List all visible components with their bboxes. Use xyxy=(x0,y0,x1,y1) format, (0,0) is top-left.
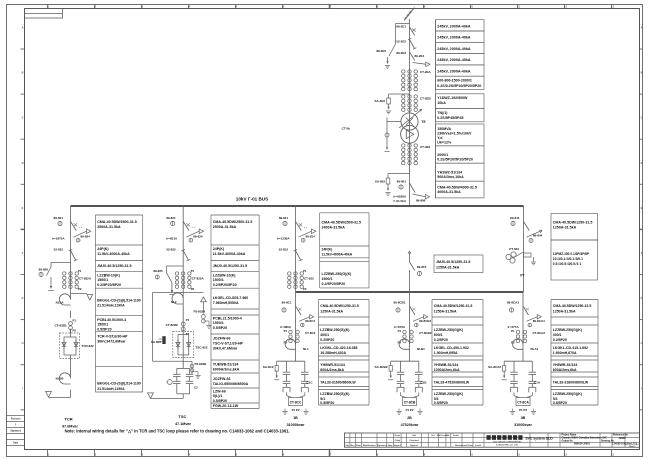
svg-text:JOZFW-66: JOZFW-66 xyxy=(213,337,231,341)
svg-text:CT-8CA: CT-8CA xyxy=(517,400,529,404)
svg-text:Project Name: Project Name xyxy=(562,433,577,436)
svg-text:I: I xyxy=(641,386,642,390)
svg-text:CT-8CB: CT-8CB xyxy=(404,400,416,404)
svg-text:XUJI GROUP CORPORATION: XUJI GROUP CORPORATION xyxy=(493,441,521,444)
svg-text:16.288mH,420A: 16.288mH,420A xyxy=(320,351,346,355)
svg-text:CT-2EB: CT-2EB xyxy=(420,97,432,101)
svg-text:7: 7 xyxy=(330,452,332,456)
svg-text:1250A-31.5kA: 1250A-31.5kA xyxy=(553,310,576,314)
svg-text:Y,d: Y,d xyxy=(437,136,442,140)
svg-text:G: G xyxy=(640,296,642,300)
svg-text:89-8C4: 89-8C4 xyxy=(305,319,315,323)
svg-text:CT-2EA: CT-2EA xyxy=(420,70,432,74)
svg-text:0.2/5P20/5P20: 0.2/5P20/5P20 xyxy=(322,282,346,286)
svg-text:P3-822B: P3-822B xyxy=(195,362,208,366)
svg-text:245kV, 2000A-40kA: 245kV, 2000A-40kA xyxy=(437,47,471,51)
svg-text:12: 12 xyxy=(564,452,567,456)
svg-text:Chkd: Chkd xyxy=(395,440,401,442)
svg-text:BKGGL-CD-(S)(I),514-1190: BKGGL-CD-(S)(I),514-1190 xyxy=(97,382,141,386)
svg-text:89-811: 89-811 xyxy=(279,216,289,220)
svg-text:230kV±3×1.5%/10kV: 230kV±3×1.5%/10kV xyxy=(437,132,472,136)
svg-text:89-826: 89-826 xyxy=(39,267,49,271)
svg-text:CT-822A: CT-822A xyxy=(192,276,205,280)
svg-text:1500/1: 1500/1 xyxy=(213,321,224,325)
svg-text:52-822: 52-822 xyxy=(166,247,176,251)
svg-text:0.2/5P20/5P20: 0.2/5P20/5P20 xyxy=(213,283,237,287)
svg-text:LZZBW-10(K): LZZBW-10(K) xyxy=(97,273,120,277)
svg-text:TALIO-6500/66/6500A: TALIO-6500/66/6500A xyxy=(213,382,249,386)
svg-text:150MVA: 150MVA xyxy=(437,127,451,131)
svg-text:NL3A: NL3A xyxy=(56,301,65,305)
svg-text:PT: PT xyxy=(520,274,524,278)
svg-text:NL1: NL1 xyxy=(303,347,309,351)
svg-text:4000A-31.5kA: 4000A-31.5kA xyxy=(437,190,461,194)
svg-text:Γ-01.5kA: Γ-01.5kA xyxy=(394,199,407,203)
svg-text:TSC-822: TSC-822 xyxy=(196,345,208,349)
svg-text:21.514mH,1190A: 21.514mH,1190A xyxy=(97,387,125,391)
svg-text:E: E xyxy=(22,206,24,210)
svg-text:CMA-40.5DW/2500-31.5: CMA-40.5DW/2500-31.5 xyxy=(97,220,137,224)
svg-text:89-841: 89-841 xyxy=(510,216,520,220)
svg-text:Apprd: Apprd xyxy=(394,444,401,447)
svg-text:A: A xyxy=(641,26,643,30)
svg-text:LKGKL-CD-420-16.288: LKGKL-CD-420-16.288 xyxy=(320,346,357,350)
svg-text:1: 1 xyxy=(48,452,50,456)
svg-text:H: H xyxy=(641,341,643,345)
svg-text:2500A-31.5kA: 2500A-31.5kA xyxy=(213,225,237,229)
svg-text:Rev 0: Rev 0 xyxy=(629,446,635,448)
svg-text:89-815: 89-815 xyxy=(417,265,427,269)
svg-text:LZZBW-250(G)(K): LZZBW-250(G)(K) xyxy=(322,272,353,276)
svg-text:10kV Γ-01 BUS: 10kV Γ-01 BUS xyxy=(236,196,268,201)
svg-text:LZZBW-250(G)(K): LZZBW-250(G)(K) xyxy=(434,328,463,332)
svg-text:CT-832B: CT-832B xyxy=(54,323,67,327)
svg-text:89-2E5: 89-2E5 xyxy=(376,49,386,53)
svg-text:89-8CA1: 89-8CA1 xyxy=(507,301,519,305)
svg-text:2000/1: 2000/1 xyxy=(437,153,448,157)
svg-text:CMA-40.5DW/1250-31.5: CMA-40.5DW/1250-31.5 xyxy=(553,220,593,224)
svg-text:1000A/2ms,6kA: 1000A/2ms,6kA xyxy=(434,368,460,372)
svg-text:LZZBW-250(G)(K): LZZBW-250(G)(K) xyxy=(553,392,582,396)
svg-text:89-2E1: 89-2E1 xyxy=(396,25,406,29)
svg-text:Signature: Signature xyxy=(377,444,388,447)
svg-text:600A/2ms,6kA: 600A/2ms,6kA xyxy=(320,368,344,372)
svg-text:App: App xyxy=(388,444,393,447)
svg-text:Date: Date xyxy=(356,444,362,447)
svg-text:C14033-1060: C14033-1060 xyxy=(612,442,627,445)
svg-text:24P(K): 24P(K) xyxy=(213,247,225,251)
svg-text:11: 11 xyxy=(517,452,520,456)
svg-text:P1: P1 xyxy=(186,318,190,322)
svg-text:CT-8CC: CT-8CC xyxy=(290,400,302,404)
svg-text:D: D xyxy=(22,161,24,165)
svg-text:10kA: 10kA xyxy=(437,101,446,105)
svg-text:LKGEL-CD-S05-7.960: LKGEL-CD-S05-7.960 xyxy=(213,296,248,300)
svg-text:600-800-1500-2000/1: 600-800-1500-2000/1 xyxy=(437,79,472,83)
svg-text:5/1: 5/1 xyxy=(320,397,325,401)
svg-text:TCR: TCR xyxy=(64,416,72,421)
svg-text:TCR-V-ST,6/30-HP: TCR-V-ST,6/30-HP xyxy=(97,334,128,338)
svg-text:PT-842: PT-842 xyxy=(509,247,519,251)
svg-text:C: C xyxy=(22,116,24,120)
svg-text:JMJ0-40.5/1250-31.5: JMJ0-40.5/1250-31.5 xyxy=(97,264,131,268)
svg-text:PCBL21.5/1000-4: PCBL21.5/1000-4 xyxy=(213,316,242,320)
svg-text:5: 5 xyxy=(236,452,238,456)
svg-text:C1B: C1B xyxy=(421,380,428,384)
svg-text:Ir=1875A: Ir=1875A xyxy=(52,237,65,241)
svg-text:24P(K): 24P(K) xyxy=(322,248,333,252)
svg-text:245kV, 2000A-40kA: 245kV, 2000A-40kA xyxy=(437,58,471,62)
svg-text:TCR-832: TCR-832 xyxy=(82,344,95,348)
svg-text:P1: P1 xyxy=(284,329,288,333)
svg-text:P2: P2 xyxy=(73,329,77,333)
svg-text:10√3/0.1√3/0.1√3/0.1: 10√3/0.1√3/0.1√3/0.1 xyxy=(553,257,583,261)
svg-text:CT-8C2: CT-8C2 xyxy=(305,331,316,335)
svg-text:0.5/5P20: 0.5/5P20 xyxy=(434,401,448,405)
svg-text:CMA-40.5DW/1250-31.5: CMA-40.5DW/1250-31.5 xyxy=(320,304,359,308)
svg-text:21.514mH,1190A: 21.514mH,1190A xyxy=(97,304,125,308)
svg-text:89-824: 89-824 xyxy=(193,234,203,238)
svg-text:89-825: 89-825 xyxy=(153,269,163,273)
svg-text:6000A/3ms,6kA: 6000A/3ms,6kA xyxy=(213,367,240,371)
svg-text:YUEWB-51/134: YUEWB-51/134 xyxy=(213,362,239,366)
svg-text:1.692mH,670A: 1.692mH,670A xyxy=(553,351,577,355)
svg-text:89-824: 89-824 xyxy=(81,234,91,238)
svg-text:P1: P1 xyxy=(78,269,82,273)
svg-text:YH1WZ-51/134: YH1WZ-51/134 xyxy=(437,170,462,174)
svg-text:2B: 2B xyxy=(407,416,412,420)
svg-text:TAL33-31600/6600LW: TAL33-31600/6600LW xyxy=(553,381,589,385)
svg-text:9: 9 xyxy=(424,452,426,456)
svg-text:SA-8CB2: SA-8CB2 xyxy=(375,365,388,369)
svg-text:TN(/1): TN(/1) xyxy=(437,111,448,115)
svg-text:0.5/5P20: 0.5/5P20 xyxy=(553,401,567,405)
svg-text:11.5kV-4000A-40kA: 11.5kV-4000A-40kA xyxy=(322,252,353,256)
svg-text:Hd: Hd xyxy=(432,435,436,437)
svg-text:13: 13 xyxy=(611,452,614,456)
svg-text:1250A-31.5kA: 1250A-31.5kA xyxy=(320,310,343,314)
svg-text:2: 2 xyxy=(95,452,97,456)
svg-text:B: B xyxy=(641,71,643,75)
svg-text:1500/1: 1500/1 xyxy=(213,278,224,282)
svg-text:3: 3 xyxy=(142,452,144,456)
svg-text:YH5WR-51/134: YH5WR-51/134 xyxy=(320,363,345,367)
svg-text:LZZBW-250(G)(K): LZZBW-250(G)(K) xyxy=(320,392,349,396)
svg-text:NLA1: NLA1 xyxy=(531,347,539,351)
svg-text:0.2S/5P45/5P45: 0.2S/5P45/5P45 xyxy=(437,116,463,120)
svg-text:245kV, 2000A-40kA: 245kV, 2000A-40kA xyxy=(437,70,471,74)
svg-text:P3-822A: P3-822A xyxy=(194,310,207,314)
svg-text:600/1: 600/1 xyxy=(434,333,443,337)
svg-text:Apprvd: Apprvd xyxy=(410,444,418,447)
svg-text:Revision: Revision xyxy=(11,419,21,421)
svg-text:SVC system SLD: SVC system SLD xyxy=(525,436,553,440)
svg-text:245kV, 2000A-40kA: 245kV, 2000A-40kA xyxy=(437,24,471,28)
svg-text:89-806: 89-806 xyxy=(416,199,426,203)
svg-text:CMA-40.5DW/2500-31.5: CMA-40.5DW/2500-31.5 xyxy=(213,220,253,224)
svg-text:D: D xyxy=(641,161,643,165)
svg-text:B: B xyxy=(22,71,24,75)
svg-text:NL3B: NL3B xyxy=(56,377,65,381)
svg-text:1B: 1B xyxy=(293,416,298,420)
svg-text:P1: P1 xyxy=(73,319,77,323)
svg-text:24P(K): 24P(K) xyxy=(97,247,109,251)
svg-text:P1: P1 xyxy=(511,329,515,333)
svg-text:11.5kV-4000A-40kA: 11.5kV-4000A-40kA xyxy=(213,252,246,256)
svg-text:I: I xyxy=(22,386,23,390)
svg-text:31000kvar: 31000kvar xyxy=(514,423,532,427)
svg-text:30kV,3472,6Mvar: 30kV,3472,6Mvar xyxy=(97,339,126,343)
svg-text:89-801: 89-801 xyxy=(397,180,407,184)
svg-text:Checked: Checked xyxy=(409,440,419,442)
svg-text:47520kvar: 47520kvar xyxy=(401,423,419,427)
svg-text:P2: P2 xyxy=(191,287,195,291)
svg-text:0.5/5P20: 0.5/5P20 xyxy=(213,399,227,403)
svg-text:SA-822: SA-822 xyxy=(151,340,162,344)
svg-text:52-812: 52-812 xyxy=(279,247,289,251)
svg-text:CT-8CA2: CT-8CA2 xyxy=(533,331,546,335)
svg-text:CT-812: CT-812 xyxy=(304,276,314,280)
svg-text:LZW-66: LZW-66 xyxy=(213,390,226,394)
svg-text:Uk=12%: Uk=12% xyxy=(437,141,452,145)
svg-text:89-844: 89-844 xyxy=(533,234,543,238)
svg-text:0.2/5P20/5P20: 0.2/5P20/5P20 xyxy=(97,283,121,287)
svg-text:1500/1: 1500/1 xyxy=(97,278,108,282)
svg-text:P1: P1 xyxy=(191,269,195,273)
svg-text:C1A: C1A xyxy=(534,380,541,384)
svg-text:LZZBW-250(G)(K): LZZBW-250(G)(K) xyxy=(434,392,463,396)
svg-text:1500/1: 1500/1 xyxy=(322,277,333,281)
svg-text:89-2E3: 89-2E3 xyxy=(396,51,406,55)
svg-text:0.2/5P20: 0.2/5P20 xyxy=(434,338,448,342)
svg-text:CT-4E2: CT-4E2 xyxy=(420,145,431,149)
svg-text:10: 10 xyxy=(470,452,473,456)
svg-text:Install: Install xyxy=(475,444,481,447)
svg-text:YH5WR-51/134: YH5WR-51/134 xyxy=(553,363,578,367)
svg-text:CMA-40.5DW/2500-31.5: CMA-40.5DW/2500-31.5 xyxy=(322,220,362,224)
svg-text:P1: P1 xyxy=(398,329,402,333)
svg-text:400/1: 400/1 xyxy=(553,333,562,337)
svg-text:31000kvar: 31000kvar xyxy=(287,423,305,427)
svg-text:Sig: Sig xyxy=(345,445,349,447)
svg-text:3B: 3B xyxy=(521,416,526,420)
svg-text:SA-8C2: SA-8C2 xyxy=(263,365,274,369)
svg-text:C2: C2 xyxy=(194,386,198,390)
svg-text:1250A-31.5kA: 1250A-31.5kA xyxy=(553,226,577,230)
svg-text:LKGEL-CD-450-1.932: LKGEL-CD-450-1.932 xyxy=(434,346,469,350)
svg-text:5/1: 5/1 xyxy=(553,397,558,401)
svg-text:47.1Mvar: 47.1Mvar xyxy=(175,422,191,426)
svg-text:0.5/5P20: 0.5/5P20 xyxy=(97,327,111,331)
svg-text:SA-8CA2: SA-8CA2 xyxy=(488,365,501,369)
svg-text:89-8CB1: 89-8CB1 xyxy=(393,301,405,305)
svg-text:89-821: 89-821 xyxy=(166,216,176,220)
svg-text:NL2: NL2 xyxy=(171,300,177,304)
svg-text:Signature: Signature xyxy=(10,430,21,433)
svg-text:Std: Std xyxy=(412,434,416,437)
svg-text:52-2E2: 52-2E2 xyxy=(396,39,406,43)
svg-text:245kV, 2000A-40kA: 245kV, 2000A-40kA xyxy=(437,36,471,40)
svg-text:Rev: Rev xyxy=(351,445,356,447)
svg-text:0.5/5P20: 0.5/5P20 xyxy=(213,326,227,330)
svg-text:CT-5b: CT-5b xyxy=(342,127,351,131)
svg-text:1: 1 xyxy=(15,425,17,427)
svg-text:P1: P1 xyxy=(303,269,307,273)
svg-text:400/1: 400/1 xyxy=(320,333,329,337)
svg-text:Ir=1238A: Ir=1238A xyxy=(277,237,290,241)
svg-text:JMJ0-40.5/1250-31.5: JMJ0-40.5/1250-31.5 xyxy=(436,260,470,264)
svg-text:89-2E4: 89-2E4 xyxy=(415,54,425,58)
svg-text:89-821: 89-821 xyxy=(54,216,64,220)
svg-text:5(L)/1: 5(L)/1 xyxy=(213,394,223,398)
svg-text:2500A-31.5kA: 2500A-31.5kA xyxy=(97,225,121,229)
svg-text:5/1: 5/1 xyxy=(434,397,439,401)
svg-text:Date: Date xyxy=(13,442,19,445)
svg-text:XJ ELECTRIC CO., LTD: XJ ELECTRIC CO., LTD xyxy=(496,444,519,446)
svg-text:PCBL40.5/1000-4: PCBL40.5/1000-4 xyxy=(97,318,126,322)
svg-text:0.5√3/0.5√3/0.5√3 1: 0.5√3/0.5√3/0.5√3 1 xyxy=(553,262,582,266)
svg-text:Ir=821A: Ir=821A xyxy=(166,237,178,241)
svg-text:LZZBW-10(K): LZZBW-10(K) xyxy=(213,273,236,277)
svg-text:0.2S/5P20/5P20/5P20: 0.2S/5P20/5P20/5P20 xyxy=(437,158,473,162)
svg-text:0.2/5P20: 0.2/5P20 xyxy=(553,338,567,342)
svg-text:1250A-31.5kA: 1250A-31.5kA xyxy=(434,310,457,314)
svg-text:BKGGL-CD-(S)(I),514-1190: BKGGL-CD-(S)(I),514-1190 xyxy=(97,298,141,302)
svg-text:P2: P2 xyxy=(303,287,307,291)
svg-text:SA-2E2: SA-2E2 xyxy=(374,99,385,103)
svg-text:G: G xyxy=(21,296,23,300)
svg-text:P1 P2: P1 P2 xyxy=(406,408,414,412)
svg-text:A: A xyxy=(22,26,24,30)
svg-text:0.2S/0.2S/5P20/5P20/5P20: 0.2S/0.2S/5P20/5P20/5P20 xyxy=(437,84,481,88)
svg-text:TE: TE xyxy=(422,120,426,124)
svg-text:TSC-V-ST,1/20-HP: TSC-V-ST,1/20-HP xyxy=(213,342,244,346)
svg-text:Output No.: Output No. xyxy=(562,440,574,443)
svg-text:CMA-40.5DW/1250-31.5: CMA-40.5DW/1250-31.5 xyxy=(553,304,592,308)
svg-text:900A/3ms,10kA: 900A/3ms,10kA xyxy=(437,175,464,179)
svg-text:52-832: 52-832 xyxy=(54,247,64,251)
svg-text:30kV,47.6Mvar: 30kV,47.6Mvar xyxy=(213,347,238,351)
svg-text:89-814: 89-814 xyxy=(306,234,316,238)
svg-text:600A/2ms,6kA: 600A/2ms,6kA xyxy=(553,368,577,372)
svg-text:JMJ0-40.5/1250-31.5: JMJ0-40.5/1250-31.5 xyxy=(213,264,247,268)
svg-text:CMA-40.5DW/1250-31.5: CMA-40.5DW/1250-31.5 xyxy=(434,304,473,308)
svg-text:H: H xyxy=(22,341,24,345)
svg-text:FGW-20-13-1W: FGW-20-13-1W xyxy=(213,404,239,408)
svg-text:19088: 19088 xyxy=(619,437,627,440)
svg-text:Y1DWZ-192/500W: Y1DWZ-192/500W xyxy=(437,96,468,100)
svg-text:F: F xyxy=(22,251,24,255)
svg-text:11.5kV-4000A-40kA: 11.5kV-4000A-40kA xyxy=(97,252,130,256)
svg-text:Chamdo 500kV Chandjha Substati: Chamdo 500kV Chandjha Substation SVC xyxy=(562,437,608,440)
svg-text:TAL33-31600/6600LW: TAL33-31600/6600LW xyxy=(320,381,356,385)
svg-text:E: E xyxy=(641,206,643,210)
svg-text:LZZBW-250(G)(K): LZZBW-250(G)(K) xyxy=(553,328,582,332)
svg-text:1250A-31.5kA: 1250A-31.5kA xyxy=(436,266,460,270)
svg-text:C: C xyxy=(641,116,643,120)
svg-text:Modification: Modification xyxy=(363,444,377,447)
svg-text:2400A-31.5kA: 2400A-31.5kA xyxy=(322,225,346,229)
svg-text:4: 4 xyxy=(189,452,191,456)
svg-text:89-8CA4: 89-8CA4 xyxy=(533,319,545,323)
svg-text:Sheet 1 Pg: Sheet 1 Pg xyxy=(627,442,638,445)
svg-text:P1 P2: P1 P2 xyxy=(519,408,527,412)
svg-text:Mechanical Draw: Mechanical Draw xyxy=(455,445,473,447)
svg-text:89-8CB4: 89-8CB4 xyxy=(419,319,431,323)
svg-text:JOZFW-66: JOZFW-66 xyxy=(213,377,231,381)
svg-text:TSC: TSC xyxy=(178,414,186,419)
svg-text:Scale: Scale xyxy=(453,435,459,437)
svg-text:89-8C1: 89-8C1 xyxy=(282,301,292,305)
svg-text:0.2/5P20: 0.2/5P20 xyxy=(320,338,334,342)
svg-text:C1C: C1C xyxy=(307,380,314,384)
svg-text:LKGKL-CD-415-1.692: LKGKL-CD-415-1.692 xyxy=(553,346,588,350)
svg-text:P2: P2 xyxy=(78,287,82,291)
svg-text:1.902mH,695A: 1.902mH,695A xyxy=(434,351,458,355)
svg-text:CT-832A: CT-832A xyxy=(79,276,92,280)
svg-text:NLB1: NLB1 xyxy=(417,347,425,351)
svg-text:7.960mH,5050A: 7.960mH,5050A xyxy=(213,301,239,305)
svg-text:CT-822B: CT-822B xyxy=(166,323,179,327)
svg-text:1500/1: 1500/1 xyxy=(97,323,108,327)
svg-text:6: 6 xyxy=(283,452,285,456)
svg-text:SA-802: SA-802 xyxy=(375,180,386,184)
svg-text:CT-8CB2: CT-8CB2 xyxy=(419,331,432,335)
svg-text:P1 P2: P1 P2 xyxy=(292,408,300,412)
svg-text:P2: P2 xyxy=(186,332,190,336)
svg-text:CMA-40.5DW/4000-31.5: CMA-40.5DW/4000-31.5 xyxy=(437,186,477,190)
svg-text:LZZBW-250(G)(K): LZZBW-250(G)(K) xyxy=(320,328,349,332)
svg-text:Note: Internal wiring details: Note: Internal wiring details for "△" in… xyxy=(65,429,290,434)
svg-text:8: 8 xyxy=(377,452,379,456)
svg-text:TAL33-47520/6600LW: TAL33-47520/6600LW xyxy=(434,381,470,385)
svg-text:Dsgn: Dsgn xyxy=(395,435,401,437)
svg-text:YH5WB-51/134: YH5WB-51/134 xyxy=(434,363,459,367)
svg-text:12PMZ-150 0.1/3P/3P/6P: 12PMZ-150 0.1/3P/3P/6P xyxy=(553,252,590,256)
svg-text:0.5/5P20: 0.5/5P20 xyxy=(320,401,334,405)
svg-text:Wt: Wt xyxy=(447,434,450,437)
svg-text:B09014-J0801: B09014-J0801 xyxy=(574,442,590,445)
